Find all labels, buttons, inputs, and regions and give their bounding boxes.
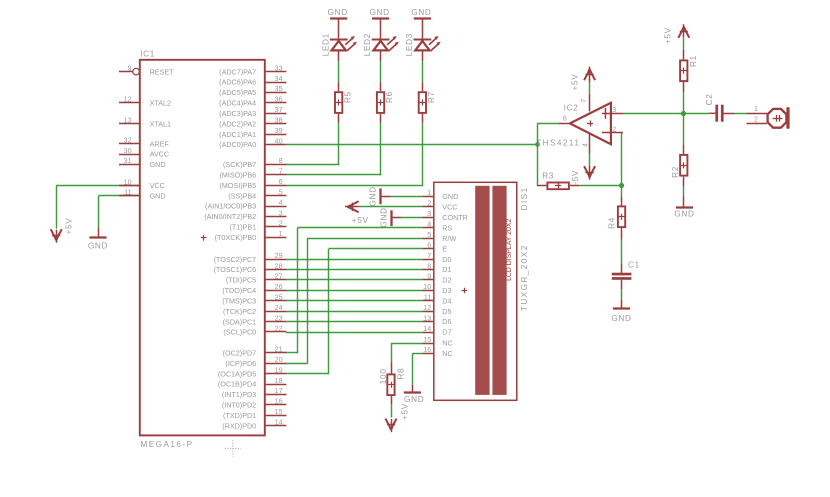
IC1 pin label (ADC4)PA4 [219,99,256,108]
svg-text:R7: R7 [427,91,436,103]
svg-text:-5V: -5V [571,170,580,185]
svg-text:16: 16 [275,397,283,406]
IC1 pin 40 stub [265,136,287,145]
supply +5V below VCC wire [51,218,74,243]
wire LED3 to R7 [422,50,424,91]
wire DIS1 pin 1 to ground [381,196,422,198]
svg-text:33: 33 [275,63,283,72]
DIS1 pin label R/W [442,234,456,243]
wire DIS1 pin 3 to ground [392,217,422,219]
svg-text:5: 5 [427,230,431,239]
wire GND to LED2 [380,19,382,40]
svg-text:GND: GND [411,8,431,17]
IC2 pin 2 (inverting) stub [602,124,623,133]
svg-text:LED3: LED3 [405,33,414,56]
IC1 pin label (ICP)PD6 [225,359,256,368]
svg-text:XTAL1: XTAL1 [150,119,171,128]
IC1 pin 10 (VCC) stub [119,177,140,186]
DIS1 pin 7 stub [423,251,434,260]
svg-text:GND: GND [611,314,631,323]
svg-text:7: 7 [279,167,283,176]
svg-text:(AIN1/OC0)PB3: (AIN1/OC0)PB3 [205,202,256,211]
svg-text:22: 22 [275,324,283,333]
svg-text:34: 34 [275,74,283,83]
wire +5V to R1 [683,37,685,59]
wire C2 to microphone pin 1 [724,113,747,115]
svg-text:4: 4 [427,220,431,229]
wire net D0 from IC1 pin 29 to DIS1 pin 7 [286,259,423,261]
svg-text:13: 13 [423,313,431,322]
DIS1 name label [520,186,529,210]
svg-text:(ADC4)PA4: (ADC4)PA4 [219,99,256,108]
IC1 pin 23 stub [265,313,287,322]
svg-text:(RXD)PD0: (RXD)PD0 [222,421,256,430]
supply -5V below IC2 [571,166,595,185]
wire GND to LED3 [422,19,424,40]
IC1 pin label (INT0)PD2 [222,401,256,410]
junction mic node [681,111,686,116]
wire net D2 from IC1 pin 27 to DIS1 pin 9 [286,279,423,281]
svg-text:D5: D5 [442,307,451,316]
svg-text:VCC: VCC [442,203,457,212]
IC2 name label [564,103,579,112]
svg-text:(OC1A)PD5: (OC1A)PD5 [218,369,256,378]
DIS1 pin 11 stub [423,293,434,302]
svg-text:NC: NC [442,349,452,358]
resistor R5 [335,91,352,113]
svg-text:RESET: RESET [150,67,175,76]
ground GND at DIS1 pin 1 [369,186,381,206]
junction inverting node [619,183,624,188]
wire node to R4 [621,186,623,206]
op-amp IC2 THS4211 [570,103,611,144]
IC1 pin 3 stub [265,208,287,217]
IC1 pin label (SS)PB4 [228,191,256,200]
DIS1 pin 4 stub [423,220,434,229]
IC1 pin label RESET [150,67,175,76]
IC1 pin 36 stub [265,95,287,104]
svg-text:GND: GND [404,395,424,404]
microphone pin 2 stub [746,114,767,123]
wire node up to IC2 output pin 6 [537,123,570,144]
svg-text:(TDO)PC4: (TDO)PC4 [222,286,256,295]
svg-text:26: 26 [275,282,283,291]
DIS1 pin label CONTR [442,213,468,222]
svg-text:GND: GND [369,8,389,17]
wire net D3 from IC1 pin 26 to DIS1 pin 10 [286,290,423,292]
svg-text:(ADC2)PA2: (ADC2)PA2 [219,119,256,128]
wire GND to LED1 [338,19,340,40]
wire DIS1 pin 2 to +5V [358,206,422,208]
svg-text:36: 36 [275,95,283,104]
wire net D7 from IC1 pin 22 to DIS1 pin 14 [286,332,423,334]
resistor R8 [387,368,405,396]
DIS1 pin 6 stub [423,241,434,250]
IC1 pin label (TXD)PD1 [223,411,256,420]
svg-text:(MOSI)PB5: (MOSI)PB5 [219,181,256,190]
svg-text:(TOSC1)PC6: (TOSC1)PC6 [214,265,257,274]
IC1 pin 19 stub [265,365,287,374]
IC1 pin 18 stub [265,376,287,385]
svg-text:D6: D6 [442,317,451,326]
IC1 pin 20 stub [265,355,287,364]
wire net E from IC1 pin 19 to DIS1 pin 6 [286,249,423,375]
DIS1 origin cross [462,288,468,294]
wire node to R2 [683,113,685,154]
svg-text:R4: R4 [607,217,616,229]
svg-text:IC2: IC2 [564,103,579,112]
svg-text:21: 21 [275,345,283,354]
IC2 pin 4 power stub [580,133,589,166]
IC1 pin label (T1)PB1 [229,223,256,232]
DIS1 pin 15 stub [423,335,434,344]
wire R1 to mic node [683,82,685,113]
svg-text:30: 30 [124,146,132,155]
wire LED2 to R6 [380,50,382,91]
svg-text:(T1)PB1: (T1)PB1 [229,223,256,232]
IC1 pin label (TDO)PC4 [222,286,256,295]
LCD dark bar right [492,186,506,395]
IC1 pin 15 stub [265,407,287,416]
ground GND at DIS1 pin 3 [380,207,392,227]
svg-text:(INT0)PD2: (INT0)PD2 [222,401,256,410]
svg-text:16: 16 [423,345,431,354]
svg-text:4: 4 [580,143,589,147]
svg-text:CONTR: CONTR [442,213,468,222]
IC1 pin 39 stub [265,126,287,135]
svg-text:12: 12 [124,95,132,104]
IC1 origin cross [201,235,207,241]
IC1 pin label (ADC3)PA3 [219,109,256,118]
svg-text:(ADC7)PA7: (ADC7)PA7 [219,67,256,76]
IC1 pin label (T0XCK)PB0 [215,233,257,242]
ground GND below R2 [674,208,694,219]
supply +5V below R8 [386,403,410,432]
svg-text:R2: R2 [671,166,680,178]
IC1 pin 1 stub [265,229,287,238]
svg-text:15: 15 [275,407,283,416]
ground GND below IC1 pin 11 [88,238,108,251]
svg-text:IC1: IC1 [140,49,155,58]
svg-text:11: 11 [424,293,431,302]
svg-text:14: 14 [423,324,431,333]
ground GND below C1 [611,309,631,323]
svg-text:+5V: +5V [352,216,369,225]
svg-text:4: 4 [279,198,283,207]
IC1 pin 37 stub [265,105,287,114]
svg-text:GND: GND [369,186,378,206]
supply +5V above R1 [664,24,690,44]
svg-text:GND: GND [88,241,108,250]
svg-text:9: 9 [128,63,132,72]
svg-text:(ADC3)PA3: (ADC3)PA3 [219,109,256,118]
IC1 pin 6 stub [265,177,287,186]
IC1 pin label (SDA)PC1 [223,317,257,326]
IC1 pin label (OC2)PD7 [223,349,257,358]
svg-text:2: 2 [427,199,431,208]
svg-text:38: 38 [275,116,283,125]
resistor R7 [419,91,436,113]
wire net D5 from IC1 pin 24 to DIS1 pin 12 [286,311,423,313]
IC1 pin 9 (RESET) stub [119,63,139,74]
wire R5 to IC1 pin 8 [286,114,339,165]
svg-text:C2: C2 [705,93,714,105]
ground GND above LED1 [328,8,348,19]
svg-text:D3: D3 [442,286,451,295]
svg-text:40: 40 [275,136,283,145]
IC2 pin 7 power stub [579,79,590,112]
IC1 pin label (ADC6)PA6 [219,78,256,87]
IC1 pin label AVCC [150,150,169,159]
svg-text:(SCK)PB7: (SCK)PB7 [223,160,256,169]
IC1 pin 26 stub [265,282,287,291]
ground GND below DIS1 pin 16 [404,393,425,405]
svg-text:7: 7 [427,251,431,260]
capacitor C1 [612,260,640,280]
svg-text:GND: GND [380,207,389,227]
IC2 pin 6 number [563,113,567,122]
svg-text:3: 3 [612,105,616,114]
IC1 pin 8 stub [265,156,287,165]
IC1 pin 14 stub [265,418,287,427]
IC1 pin 34 stub [265,74,287,83]
svg-text:12: 12 [423,303,431,312]
IC1 pin label (OC1B)PD4 [218,380,256,389]
svg-text:(T0XCK)PB0: (T0XCK)PB0 [215,233,257,242]
IC1 pin label GND [150,192,166,201]
IC2 value THS4211 [536,138,580,147]
DIS1 pin label D5 [442,307,451,316]
svg-text:3: 3 [279,208,283,217]
svg-text:1: 1 [279,229,283,238]
IC1 name label [140,49,155,58]
ground GND above LED2 [369,8,389,19]
svg-text:(ADC6)PA6: (ADC6)PA6 [219,78,256,87]
LED LED3 [405,33,441,56]
svg-text:E: E [442,244,447,253]
DIS1 label LCD DISPLAY 20X2 [506,219,513,281]
svg-text:(SS)PB4: (SS)PB4 [228,191,256,200]
svg-text:(MISO)PB6: (MISO)PB6 [219,170,256,179]
svg-text:3: 3 [427,209,431,218]
svg-text:29: 29 [275,251,283,260]
svg-text:8: 8 [279,156,283,165]
svg-text:VCC: VCC [150,181,165,190]
IC1 pin 27 stub [265,272,287,281]
svg-text:1: 1 [427,188,431,197]
IC1 pin label (OC1A)PD5 [218,369,256,378]
IC1 pin 2 stub [265,219,287,228]
IC1 pin 25 stub [265,293,287,302]
IC1 pin 33 stub [265,63,287,72]
svg-text:R3: R3 [542,172,554,181]
wire node down to R3 [537,144,546,186]
svg-text:+5V: +5V [400,403,409,420]
svg-text:(ADC5)PA5: (ADC5)PA5 [219,88,256,97]
svg-text:(INT1)PD3: (INT1)PD3 [222,390,256,399]
IC1 pin 35 stub [265,84,287,93]
svg-text:(SCL)PC0: (SCL)PC0 [223,328,256,337]
wire R2 to ground [683,177,685,208]
wire IC2 pin 2 to inverting node [621,133,623,186]
svg-text:(TMS)PC3: (TMS)PC3 [222,296,256,305]
svg-text:GND: GND [150,160,166,169]
IC1 pin 32 (AREF) stub [119,135,140,144]
IC1 pin 5 stub [265,187,287,196]
svg-text:+5V: +5V [570,74,579,91]
svg-text:2: 2 [612,124,616,133]
svg-text:9: 9 [427,272,431,281]
svg-text:LED2: LED2 [363,33,372,56]
DIS1 pin 12 stub [423,303,434,312]
IC1 pin 11 (GND) stub [119,188,140,197]
wire IC1 pin 10 VCC to +5V [56,186,140,229]
wire IC2 pin 3 to mic node and C2 [623,113,709,115]
wire LED1 to R5 [338,50,340,91]
IC1 pin 38 stub [265,116,287,125]
DIS1 value TUXGR_20X2 [520,244,529,311]
svg-text:LCD DISPLAY 20X2: LCD DISPLAY 20X2 [506,219,513,281]
IC1 pin label VCC [150,181,165,190]
svg-text:6: 6 [279,177,283,186]
svg-text:15: 15 [423,335,431,344]
LCD dark bar left [475,186,489,395]
svg-text:5: 5 [279,187,283,196]
R8 value 100 [379,368,388,384]
svg-text:13: 13 [124,115,132,124]
IC1 pin label XTAL2 [150,98,171,107]
IC1 pin label (ADC2)PA2 [219,119,256,128]
IC1 pin 7 stub [265,167,287,176]
svg-text:(TDI)PC5: (TDI)PC5 [226,276,256,285]
svg-text:(ICP)PD6: (ICP)PD6 [225,359,256,368]
svg-text:RS: RS [442,223,452,232]
svg-text:(OC2)PD7: (OC2)PD7 [223,349,257,358]
wire net RS from IC1 pin 21 to DIS1 pin 4 [286,228,423,354]
IC1 pin 28 stub [265,261,287,270]
IC1 pin 22 stub [265,324,287,333]
svg-text:LED1: LED1 [321,33,330,56]
IC1 pin label XTAL1 [150,119,171,128]
svg-text:(AIN0/INT2)PB2: (AIN0/INT2)PB2 [204,212,256,221]
DIS1 pin 3 stub [423,209,434,218]
DIS1 pin label D1 [442,265,451,274]
wire C1 to ground [621,280,623,309]
IC1 pin 29 stub [265,251,287,260]
svg-text:35: 35 [275,84,283,93]
LED LED2 [363,33,399,56]
svg-text:(TCK)PC2: (TCK)PC2 [223,307,256,316]
IC1 pin 12 (XTAL2) stub [119,95,140,104]
IC1 pin label (INT1)PD3 [222,390,256,399]
DIS1 pin 2 stub [423,199,434,208]
svg-text:TUXGR_20X2: TUXGR_20X2 [520,244,529,311]
wire net D1 from IC1 pin 28 to DIS1 pin 8 [286,269,423,271]
svg-text:6: 6 [563,113,567,122]
svg-text:23: 23 [275,313,283,322]
svg-text:37: 37 [275,105,283,114]
wire R4 to C1 [621,228,623,273]
svg-text:27: 27 [275,272,283,281]
svg-text:D7: D7 [442,328,451,337]
DIS1 pin label D0 [442,255,451,264]
IC1 pin label (SCL)PC0 [223,328,256,337]
svg-text:1: 1 [754,104,758,113]
microphone MIC [768,107,790,129]
wire net PA0 from IC1 pin 40 to feedback node [286,144,537,146]
DIS1 pin 16 stub [423,345,434,354]
DIS1 pin label NC [442,339,452,348]
svg-text:DIS1: DIS1 [520,186,529,210]
IC1 pin label AREF [150,139,170,148]
svg-text:AREF: AREF [150,139,170,148]
LCD module DIS1 body [434,182,517,400]
svg-text:39: 39 [275,126,283,135]
DIS1 pin 5 stub [423,230,434,239]
svg-text:24: 24 [275,303,283,312]
IC1 pin label (TDI)PC5 [226,276,256,285]
IC1 pin label (ADC1)PA1 [219,130,256,139]
svg-text:18: 18 [275,376,283,385]
IC1 pin label (AIN1/OC0)PB3 [205,202,256,211]
wire IC1 pin 11 GND to ground [98,196,139,238]
IC1 pin label (RXD)PD0 [222,421,256,430]
DIS1 pin label GND [442,192,458,201]
IC1 pin label (TCK)PC2 [223,307,256,316]
svg-text:GND: GND [442,192,458,201]
DIS1 pin label D4 [442,296,451,305]
supply +5V above IC2 [570,67,595,91]
svg-text:(ADC0)PA0: (ADC0)PA0 [219,140,256,149]
wire net D4 from IC1 pin 25 to DIS1 pin 11 [286,300,423,302]
IC1 pin 16 stub [265,397,287,406]
svg-text:100: 100 [379,368,388,384]
microphone pin 1 stub [746,104,767,114]
IC1 MEGA16-P body [140,60,265,436]
IC1 pin label (MOSI)PB5 [219,181,256,190]
svg-text:(TXD)PD1: (TXD)PD1 [223,411,256,420]
DIS1 pin 14 stub [423,324,434,333]
DIS1 pin label NC [442,349,452,358]
svg-text:D0: D0 [442,255,451,264]
wire R6 to IC1 pin 7 [286,114,381,176]
svg-text:8: 8 [427,261,431,270]
svg-text:D4: D4 [442,296,451,305]
svg-text:GND: GND [674,209,694,218]
svg-text:+5V: +5V [664,27,673,44]
svg-text:6: 6 [427,241,431,250]
LED LED1 [321,33,357,56]
IC1 value MEGA16-P [141,440,194,449]
DIS1 pin label D2 [442,276,451,285]
IC1 pin label (TOSC1)PC6 [214,265,257,274]
svg-text:14: 14 [275,418,283,427]
wire R3 to inverting node [570,185,622,187]
svg-text:THS4211: THS4211 [536,138,580,147]
wire DIS1 pin 15 to R8 [391,343,423,374]
svg-text:AVCC: AVCC [150,150,169,159]
IC1 pin label (ADC0)PA0 [219,140,256,149]
wire DIS1 pin 16 to ground [412,353,422,392]
svg-text:2: 2 [754,114,758,123]
IC1 pin 31 (GND) stub [119,156,140,165]
svg-text:R8: R8 [397,368,406,380]
IC1 pin label (ADC5)PA5 [219,88,256,97]
svg-text:10: 10 [423,282,431,291]
IC1 pin label (TMS)PC3 [222,296,256,305]
svg-text:D1: D1 [442,265,451,274]
svg-text:(OC1B)PD4: (OC1B)PD4 [218,380,256,389]
